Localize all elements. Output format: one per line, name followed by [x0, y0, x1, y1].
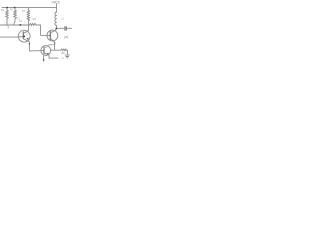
svg-text:R1: R1: [1, 8, 5, 12]
svg-text:+VCC: +VCC: [51, 1, 61, 5]
svg-text:R2: R2: [10, 8, 14, 12]
svg-text:RE: RE: [61, 51, 65, 55]
svg-text:R3: R3: [22, 9, 26, 13]
svg-text:R4: R4: [33, 17, 37, 21]
svg-text:(a): (a): [64, 35, 68, 39]
